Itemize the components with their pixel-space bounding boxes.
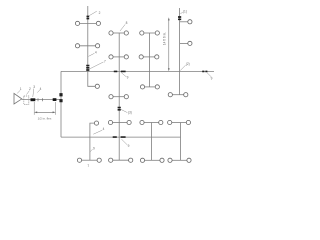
conduit tick marks riser A top [87,16,90,18]
wire riser A (left column vertical) [88,6,95,86]
speaker pair S15 bottom column C [140,158,164,162]
conduit tick marks panel-left vertical at horn tap [59,94,62,101]
svg-text:3: 3 [33,85,35,89]
svg-text:2: 2 [99,11,101,15]
conduit tick marks riser A above trunk [86,66,89,70]
leader callout riser A top [89,11,97,16]
leader callout 1 at horn [17,90,20,93]
wire riser A lower drop [90,123,97,160]
svg-text:9: 9 [128,144,130,148]
svg-text:8: 8 [126,21,128,25]
svg-text:9: 9 [211,76,213,80]
conduit tick marks riser B midspan [118,108,121,110]
speaker pair S11 row1 column C [140,31,160,35]
wire horn branch [22,99,61,101]
speaker pair S6 row1 column B [109,31,129,35]
leader callout riser B midspan ticks [121,109,128,112]
speaker S17 on riser D second [180,41,192,45]
svg-text:(2): (2) [186,62,190,66]
wire riser D (right column vertical) [179,8,181,95]
leader callout riser A mid [88,53,94,56]
svg-text:9: 9 [127,76,129,80]
speaker pair S9 row4 column B [108,120,131,124]
leader callout riser A above trunk [90,62,104,69]
speaker pair S18 row3 column D [168,93,188,97]
speaker pair S14 row4 column C [140,120,163,124]
leader callout riser A lower elbow [93,130,102,134]
svg-text:2: 2 [29,87,31,91]
device FS2 (second solid fitting on horn branch) [53,98,57,101]
leader callout riser D top label [180,12,183,14]
wire riser D lower drop [180,123,182,161]
speaker pair S1 row1 left column [75,21,100,25]
svg-text:9: 9 [93,147,95,151]
svg-text:4: 4 [103,127,105,131]
speaker pair S7 row2 column B [109,55,129,59]
conduit tick marks bus at riser B crossing [113,136,126,138]
leader callout 2 at back box [27,91,30,95]
leader callout riser B top [120,24,125,31]
speaker S4 single on riser A lower elbow [94,121,98,125]
conduit tick marks trunk at riser B crossing [114,70,126,72]
speaker S16 on riser D top [180,20,192,24]
device FS1 (solid module on horn branch) [31,98,36,101]
svg-text:7: 7 [87,164,89,168]
svg-text:4: 4 [95,51,97,55]
dimension riser D height [163,17,170,71]
leader callout bus at riser B [122,139,128,145]
svg-text:7: 7 [104,59,106,63]
leader callout 4 at horn branch wire [37,90,40,93]
horn LS1 (triangle loudspeaker symbol) [14,93,22,104]
speaker S3 single on riser A elbow [95,84,99,88]
speaker pair S12 row2 column C [139,55,159,59]
leader callout trunk right ticks [207,73,211,77]
svg-text:4: 4 [40,87,42,91]
leader callout trunk at riser B [121,73,126,77]
leader callout riser D junction [180,65,185,70]
back box (dashed outline) [24,96,29,104]
wire panel loop left vertical [60,71,62,137]
speaker pair S19 row4 column D [168,120,191,124]
conduit tick marks trunk right end [202,70,207,72]
svg-text:(1): (1) [183,10,187,14]
flex connector ticks on horn branch [38,98,43,101]
leader callout 3 at device FS1 [33,89,34,97]
wire bottom bus [61,136,181,138]
wire riser B (first middle column vertical) [118,33,120,160]
wire trunk (main horizontal conduit) [61,70,214,72]
speaker pair S10 bottom column B [109,158,133,162]
speaker pair S20 bottom column D [168,158,191,162]
conduit tick marks riser D top [178,17,181,19]
speaker pair S13 row3 column C [140,85,159,89]
svg-text:(3): (3) [128,111,132,115]
svg-text:1/2 in. flex: 1/2 in. flex [38,116,52,120]
speaker pair S2 row2 left column [75,44,99,48]
dimension flex length at horn branch [34,102,55,120]
wire riser C upper (second middle column) [149,33,151,87]
svg-text:1: 1 [20,87,22,91]
svg-text:14 ft 6 in.: 14 ft 6 in. [163,32,167,45]
wire riser C lower [151,123,153,161]
speaker pair S8 row3 column B [109,95,129,99]
leader callout bottom pair S5 [90,149,93,152]
speaker pair S5 bottom left column [77,158,101,162]
